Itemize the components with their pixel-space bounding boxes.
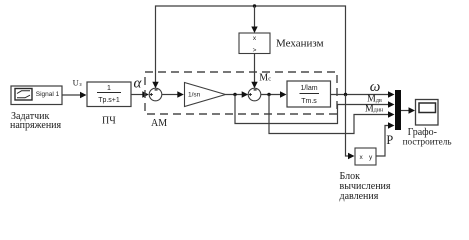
svg-text:Механизм: Механизм	[276, 38, 324, 50]
svg-text:ω: ω	[370, 79, 381, 95]
wire sum1 to gain	[162, 91, 184, 97]
svg-text:Signal 1: Signal 1	[36, 91, 60, 98]
dashed subsystem box АМ	[145, 72, 337, 114]
svg-text:>: >	[253, 47, 257, 54]
svg-text:ПЧ: ПЧ	[102, 116, 116, 127]
block ПЧ transfer function 1/(Tp.s+1)	[87, 82, 131, 107]
wire gain to sum2 with junction A	[226, 91, 249, 97]
block Signal (Задатчик напряжения)	[11, 86, 62, 105]
block x-y Блок вычисления давления	[355, 148, 376, 165]
svg-text:АМ: АМ	[151, 118, 167, 129]
wire Механизм to sum2 (Мс)	[251, 54, 257, 89]
svg-text:1/sn: 1/sn	[188, 92, 201, 99]
block transfer function 1/lam / Tm.s	[287, 81, 331, 107]
wire Мдв feedback (junction A to mux input 2)	[235, 95, 395, 124]
label Графо-построитель	[403, 127, 452, 146]
wire Signal to ПЧ	[62, 92, 87, 98]
wire omega output to mux with junction C	[331, 91, 395, 97]
label Задатчик напряжения	[10, 111, 62, 131]
svg-text:построитель: построитель	[403, 137, 452, 147]
gain 1/sn	[185, 83, 226, 107]
label Блок вычисления давления	[340, 171, 391, 202]
junction on top line to Механизм	[251, 4, 257, 33]
wire P from x-y block to mux input 4	[376, 122, 395, 156]
wire sum2 to transfer fcn with junction B	[261, 91, 287, 97]
svg-text:1/lam: 1/lam	[300, 85, 317, 92]
wire omega to pressure block (junction C down)	[346, 95, 355, 160]
svg-text:1: 1	[107, 85, 111, 92]
sum S1	[149, 88, 162, 101]
wire ПЧ to sum1	[131, 91, 149, 97]
svg-text:давления: давления	[340, 191, 379, 202]
svg-text:U: U	[73, 77, 79, 87]
svg-text:Tm.s: Tm.s	[301, 98, 317, 105]
wire top feedback (omega)	[152, 6, 345, 95]
svg-text:Tp.s+1: Tp.s+1	[98, 97, 120, 104]
block Механизм	[239, 33, 270, 54]
svg-text:α: α	[134, 76, 143, 92]
sum S2	[248, 88, 261, 101]
wire Мдин feedback (junction B to mux input 3)	[269, 95, 395, 134]
scope Графопостроитель	[416, 100, 439, 126]
mux	[395, 90, 401, 130]
wire mux to scope	[401, 107, 415, 113]
svg-text:напряжения: напряжения	[10, 120, 62, 131]
svg-text:Р: Р	[386, 133, 393, 147]
